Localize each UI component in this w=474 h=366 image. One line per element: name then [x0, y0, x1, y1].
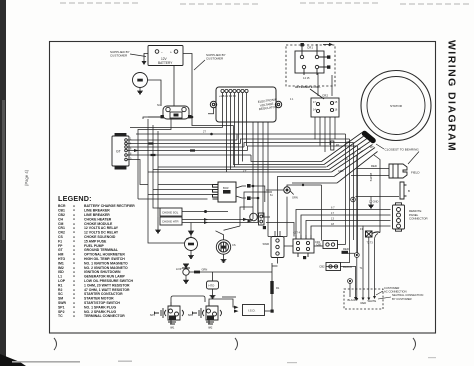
svg-text:LEGEND:: LEGEND: — [58, 194, 92, 203]
svg-text:GRN: GRN — [338, 170, 344, 173]
svg-text:LOP: LOP — [176, 267, 182, 271]
svg-text:SP2: SP2 — [58, 310, 65, 314]
svg-text:B: B — [408, 189, 410, 193]
svg-text:NO. 2 SPARK PLUG: NO. 2 SPARK PLUG — [84, 310, 117, 314]
svg-text:=: = — [73, 209, 75, 213]
svg-text:START/STOP SWITCH: START/STOP SWITCH — [84, 301, 120, 305]
svg-text:CHOKE SOL: CHOKE SOL — [162, 211, 179, 215]
svg-text:SP1: SP1 — [58, 305, 65, 309]
label supplied by customer (left) — [110, 50, 130, 58]
svg-text:IM2: IM2 — [58, 266, 64, 270]
svg-text:GROUND TERMINAL: GROUND TERMINAL — [84, 248, 118, 252]
line breaker CB1 — [323, 241, 338, 249]
svg-text:12 GND: 12 GND — [369, 200, 378, 204]
border frame — [50, 42, 436, 334]
svg-text:SP1: SP1 — [150, 313, 156, 317]
hourmeter HM — [284, 187, 290, 193]
svg-text:FUEL PUMP: FUEL PUMP — [84, 244, 105, 248]
remote panel connector — [393, 203, 405, 231]
CS top wire — [216, 226, 241, 240]
ignition magneto IM2 + spark plug SP2 — [193, 302, 222, 324]
svg-text:HM: HM — [58, 253, 63, 257]
svg-text:NO. 1 SPARK PLUG: NO. 1 SPARK PLUG — [84, 305, 117, 309]
svg-text:CB2: CB2 — [58, 213, 65, 217]
stator — [361, 71, 431, 141]
svg-text:HIGH OIL TEMP. SWITCH: HIGH OIL TEMP. SWITCH — [84, 257, 125, 261]
svg-text:CR1: CR1 — [58, 226, 65, 230]
fan tip labels — [338, 141, 361, 173]
fuel pump FP — [185, 238, 198, 251]
starter motor SM — [133, 73, 148, 88]
wires to remote connector — [296, 210, 391, 236]
label supplied by customer (right) — [206, 53, 226, 61]
choke solenoid box — [160, 208, 182, 216]
svg-text:WHITE: WHITE — [369, 173, 373, 182]
svg-text:R1: R1 — [58, 283, 62, 287]
diagonal fan to stator blob — [322, 133, 378, 184]
choke wires — [182, 212, 258, 223]
svg-text:=: = — [73, 275, 75, 279]
svg-text:TERMINAL CONNECTOR: TERMINAL CONNECTOR — [84, 314, 125, 318]
upper group corner bends into verticals — [341, 134, 358, 263]
junction dot — [210, 133, 213, 136]
svg-text:6 7: 6 7 — [331, 206, 335, 210]
line breaker CB2 — [326, 263, 341, 271]
svg-text:HTO: HTO — [209, 284, 216, 288]
inline connector marks on TC wires — [149, 142, 154, 144]
starter contactor SC — [163, 106, 189, 119]
relay CR1 main — [293, 235, 314, 257]
SWR bottom wire + resistor R1 — [272, 258, 278, 312]
wire CR2 drops — [315, 73, 335, 152]
svg-text:2 T: 2 T — [243, 170, 247, 173]
junction dots right — [354, 253, 359, 258]
resistor R1 — [270, 281, 273, 294]
svg-text:CS: CS — [58, 235, 63, 239]
svg-text:SC: SC — [58, 292, 63, 296]
svg-text:=: = — [73, 288, 75, 292]
svg-text:GT: GT — [116, 150, 121, 154]
choke heater box — [160, 217, 182, 225]
voltage regulator VR — [210, 87, 281, 122]
svg-text:SWR: SWR — [58, 301, 67, 305]
svg-text:I.S.D.: I.S.D. — [248, 309, 256, 313]
leader to CR2 — [310, 89, 324, 99]
ground terminal GT2 — [351, 197, 356, 202]
stator lead blob — [365, 134, 374, 141]
regulator pins — [221, 89, 248, 172]
svg-text:BCR: BCR — [223, 186, 229, 190]
wire regulator left ear to ground stub — [208, 108, 214, 114]
resistor R2 — [331, 141, 334, 150]
svg-text:FP: FP — [186, 238, 189, 241]
choke solenoid CS — [216, 240, 230, 254]
ignition shutdown ISD — [243, 305, 265, 316]
svg-text:=: = — [73, 213, 75, 217]
ignition magneto IM1 + spark plug SP1 — [155, 302, 184, 324]
svg-text:=: = — [73, 310, 75, 314]
svg-text:=: = — [73, 239, 75, 243]
svg-text:ALTERNATE LOC.: ALTERNATE LOC. — [295, 85, 321, 89]
svg-text:=: = — [73, 222, 75, 226]
svg-text:GRN: GRN — [202, 268, 208, 272]
svg-text:RED: RED — [361, 301, 367, 305]
customer AC dashed box — [344, 289, 383, 309]
legend box — [58, 194, 135, 318]
svg-text:−: − — [161, 51, 163, 55]
LOP wire with label — [189, 271, 272, 273]
svg-text:AC CONNECTION: AC CONNECTION — [384, 290, 407, 294]
svg-text:=: = — [73, 266, 75, 270]
wires to field — [351, 169, 389, 176]
svg-text:=: = — [73, 235, 75, 239]
feeder horizontals into lower fan lines — [278, 177, 338, 237]
svg-text:CUSTOMER: CUSTOMER — [206, 57, 224, 61]
wire SM to SC — [148, 80, 162, 106]
svg-text:STATOR: STATOR — [390, 104, 403, 108]
svg-text:R1: R1 — [276, 286, 280, 290]
svg-text:FIELD: FIELD — [411, 171, 420, 175]
svg-text:T2 T3: T2 T3 — [367, 242, 374, 245]
svg-text:WT: WT — [370, 146, 374, 149]
wire verticals to breakers — [338, 151, 381, 299]
left verticals from SC area — [138, 117, 192, 243]
svg-text:CHOKE MODULE: CHOKE MODULE — [84, 222, 113, 226]
svg-text:=: = — [73, 226, 75, 230]
ISD right wire — [265, 310, 273, 312]
svg-text:CM: CM — [58, 222, 63, 226]
BCR output terminals — [236, 186, 246, 198]
svg-text:=: = — [73, 301, 75, 305]
bottom scan smear — [12, 361, 80, 363]
svg-text:=: = — [73, 292, 75, 296]
svg-text:R2: R2 — [58, 288, 62, 292]
svg-text:=: = — [73, 248, 75, 252]
svg-text:OPTIONAL HOURMETER: OPTIONAL HOURMETER — [84, 253, 125, 257]
battery B1 — [148, 46, 183, 66]
svg-text:ISD: ISD — [58, 270, 64, 274]
misc pin number labels — [130, 98, 294, 241]
svg-text:IGNITION SHUTDOWN: IGNITION SHUTDOWN — [84, 270, 121, 274]
svg-text:RED: RED — [343, 247, 349, 251]
wires into BCR area — [136, 122, 338, 267]
wire arrow ends in dashed box — [354, 296, 376, 301]
plug top loop wires — [171, 296, 236, 307]
svg-text:SWR: SWR — [262, 242, 269, 246]
relay CR2a coil — [250, 213, 264, 225]
svg-text:(Page 4): (Page 4) — [24, 169, 29, 186]
fuse F1 — [366, 231, 381, 237]
svg-text:NEUTRAL CONNECTION: NEUTRAL CONNECTION — [392, 293, 423, 297]
svg-text:LOP: LOP — [58, 279, 66, 283]
svg-text:=: = — [73, 297, 75, 301]
svg-text:=: = — [73, 253, 75, 257]
svg-text:BLACK: BLACK — [343, 265, 352, 269]
connector arrows to ISD — [234, 306, 239, 313]
svg-text:+12B 1 2 3 4 5 6: +12B 1 2 3 4 5 6 — [219, 96, 237, 98]
svg-text:CHOKE HTR: CHOKE HTR — [162, 220, 178, 224]
wire battery minus to SM area — [144, 54, 148, 62]
svg-text:IM2: IM2 — [208, 326, 213, 330]
scan edge bar left — [0, 0, 6, 366]
top scan artifact dashed line — [60, 3, 470, 4]
svg-text:HTO: HTO — [58, 257, 66, 261]
svg-text:LOW OIL PRESSURE SWITCH: LOW OIL PRESSURE SWITCH — [84, 279, 134, 283]
svg-text:CS: CS — [232, 243, 236, 247]
svg-text:CLOSEST TO BEARING: CLOSEST TO BEARING — [385, 148, 420, 152]
svg-text:=: = — [73, 270, 75, 274]
svg-text:BATTERY: BATTERY — [158, 61, 173, 65]
relay CR2 — [311, 98, 339, 117]
RED label near CB1 — [342, 251, 349, 254]
svg-text:CR1: CR1 — [307, 46, 313, 50]
svg-text:=: = — [73, 305, 75, 309]
svg-text:NO. 2 IGNITION MAGNETO: NO. 2 IGNITION MAGNETO — [84, 266, 128, 270]
bracket connector B — [400, 182, 407, 199]
wire bundle after staircase: upper group — [148, 126, 358, 173]
bottom scan marks ")" — [54, 338, 416, 350]
svg-text:15 AMP FUSE: 15 AMP FUSE — [84, 239, 107, 243]
svg-text:F1: F1 — [58, 239, 62, 243]
ground (SM) — [137, 88, 143, 95]
relay CR1 (optional position) — [295, 44, 329, 75]
wire leader to battery — [130, 54, 146, 57]
svg-text:NO. 1 IGNITION MAGNETO: NO. 1 IGNITION MAGNETO — [84, 261, 128, 265]
svg-text:CB2: CB2 — [319, 265, 325, 269]
battery charge rectifier BCR — [213, 182, 237, 202]
field connector — [389, 164, 407, 178]
svg-text:12 VOLTS DC RELAY: 12 VOLTS DC RELAY — [84, 231, 119, 235]
svg-text:RED: RED — [371, 164, 377, 168]
svg-text:14 15: 14 15 — [303, 76, 310, 80]
high oil temp switch HTO — [207, 281, 219, 289]
optional relay dashed enclosure — [286, 45, 335, 86]
svg-text:TC: TC — [58, 314, 63, 318]
svg-text:CB1: CB1 — [58, 209, 65, 213]
svg-text:CHOKE HEATER: CHOKE HEATER — [84, 217, 112, 221]
svg-text:CR2: CR2 — [322, 94, 328, 98]
low oil pressure switch LOP — [182, 264, 190, 275]
svg-text:LINE BREAKER: LINE BREAKER — [84, 209, 110, 213]
svg-text:WIRING DIAGRAM: WIRING DIAGRAM — [446, 40, 457, 152]
svg-text:=: = — [73, 217, 75, 221]
small ground stub — [370, 197, 372, 202]
svg-text:=: = — [73, 283, 75, 287]
svg-text:SC: SC — [157, 104, 161, 107]
wire leader right label — [194, 60, 205, 70]
wire TC pins to bundle — [128, 128, 252, 185]
svg-text:IM1: IM1 — [58, 261, 64, 265]
ground (choke) — [157, 217, 159, 227]
svg-text:=: = — [73, 204, 75, 208]
svg-text:=: = — [73, 261, 75, 265]
svg-text:YEL: YEL — [346, 141, 351, 144]
customer labels — [384, 286, 423, 301]
svg-text:GRN: GRN — [292, 196, 298, 200]
svg-text:47 OHM, 1 WATT RESISTOR: 47 OHM, 1 WATT RESISTOR — [84, 288, 130, 292]
svg-text:STARTER MOTOR: STARTER MOTOR — [84, 297, 114, 301]
svg-text:BCR: BCR — [58, 204, 66, 208]
svg-text:=: = — [73, 279, 75, 283]
wire battery plus drop — [183, 54, 234, 126]
svg-text:IM1: IM1 — [170, 326, 175, 330]
svg-text:BATTERY CHARGE RECTIFIER: BATTERY CHARGE RECTIFIER — [84, 204, 135, 208]
start/stop switch SWR — [271, 237, 284, 258]
svg-text:SM: SM — [58, 297, 63, 301]
svg-text:CUSTOMER: CUSTOMER — [110, 54, 128, 58]
svg-text:1 OHM, 20 WATT RESISTOR: 1 OHM, 20 WATT RESISTOR — [84, 283, 130, 287]
wire battery to SC — [173, 66, 175, 107]
svg-text:CH: CH — [58, 217, 63, 221]
svg-text:FP: FP — [58, 244, 63, 248]
svg-text:CR2: CR2 — [58, 231, 65, 235]
svg-text:L1: L1 — [58, 275, 62, 279]
svg-text:=: = — [73, 257, 75, 261]
svg-text:CUSTOMER: CUSTOMER — [384, 286, 399, 290]
svg-text:CHOKE SOLENOID: CHOKE SOLENOID — [84, 235, 116, 239]
svg-text:STARTER CONTACTOR: STARTER CONTACTOR — [84, 292, 123, 296]
svg-text:GENERATOR RUN LAMP: GENERATOR RUN LAMP — [84, 275, 125, 279]
svg-text:=: = — [73, 314, 75, 318]
svg-text:SP2: SP2 — [188, 313, 194, 317]
terminal connector TC — [112, 134, 129, 170]
svg-text:12 VOLTS AC RELAY: 12 VOLTS AC RELAY — [84, 226, 119, 230]
svg-text:+: + — [170, 51, 172, 55]
svg-text:BY CUSTOMER: BY CUSTOMER — [392, 297, 412, 301]
svg-text:CONNECTOR: CONNECTOR — [409, 217, 428, 221]
svg-text:=: = — [73, 231, 75, 235]
svg-text:=: = — [73, 244, 75, 248]
svg-text:LINE BREAKER: LINE BREAKER — [84, 213, 110, 217]
